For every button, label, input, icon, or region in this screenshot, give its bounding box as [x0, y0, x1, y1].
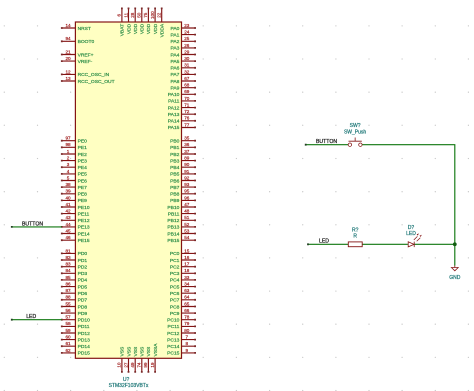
svg-text:PA10: PA10	[168, 92, 180, 98]
svg-text:55: 55	[65, 301, 71, 306]
svg-text:PB4: PB4	[170, 165, 180, 171]
svg-text:PE5: PE5	[78, 172, 88, 178]
svg-text:BOOT0: BOOT0	[78, 39, 95, 45]
svg-text:PA7: PA7	[171, 72, 180, 78]
svg-text:44: 44	[65, 222, 71, 227]
svg-text:49: 49	[130, 362, 135, 368]
svg-text:61: 61	[65, 341, 71, 346]
svg-text:PA4: PA4	[171, 52, 180, 58]
svg-text:65: 65	[184, 301, 190, 306]
svg-text:10: 10	[117, 362, 122, 368]
svg-text:74: 74	[137, 362, 142, 368]
svg-text:47: 47	[184, 202, 190, 207]
svg-text:7: 7	[186, 335, 189, 340]
svg-text:6: 6	[117, 13, 122, 16]
svg-text:58: 58	[65, 321, 71, 326]
svg-text:25: 25	[184, 36, 190, 41]
svg-text:PD8: PD8	[78, 304, 88, 310]
svg-text:PB13: PB13	[167, 225, 179, 231]
svg-text:VDD: VDD	[153, 23, 159, 34]
svg-text:69: 69	[184, 89, 190, 94]
svg-text:80: 80	[184, 328, 190, 333]
svg-text:PD3: PD3	[78, 271, 88, 277]
svg-text:87: 87	[65, 288, 71, 293]
svg-text:14: 14	[65, 23, 71, 28]
svg-text:PD4: PD4	[78, 278, 88, 284]
svg-text:SW?: SW?	[350, 123, 361, 129]
svg-text:PC5: PC5	[170, 284, 180, 290]
svg-text:PB1: PB1	[170, 145, 180, 151]
svg-text:50: 50	[137, 12, 142, 18]
svg-text:PC3: PC3	[170, 271, 180, 277]
svg-text:PD0: PD0	[78, 251, 88, 257]
svg-text:PE12: PE12	[78, 218, 90, 224]
svg-text:PE14: PE14	[78, 231, 90, 237]
svg-text:PB5: PB5	[170, 172, 180, 178]
svg-text:PE1: PE1	[78, 145, 88, 151]
svg-text:99: 99	[143, 362, 148, 368]
svg-text:PC12: PC12	[167, 331, 180, 337]
svg-text:13: 13	[65, 76, 71, 81]
svg-text:PC2: PC2	[170, 265, 180, 271]
svg-text:76: 76	[184, 116, 190, 121]
svg-text:96: 96	[184, 195, 190, 200]
svg-text:26: 26	[184, 43, 190, 48]
svg-text:1: 1	[67, 149, 70, 154]
svg-text:RCC_OSC_OUT: RCC_OSC_OUT	[78, 79, 115, 85]
svg-text:5: 5	[67, 175, 70, 180]
svg-text:PE13: PE13	[78, 225, 90, 231]
svg-text:92: 92	[184, 175, 190, 180]
svg-text:PB10: PB10	[167, 205, 179, 211]
svg-text:70: 70	[184, 96, 190, 101]
svg-text:35: 35	[184, 136, 190, 141]
svg-text:PC9: PC9	[170, 311, 180, 317]
svg-text:PE3: PE3	[78, 158, 88, 164]
svg-text:PA11: PA11	[168, 99, 180, 105]
svg-text:VREF+: VREF+	[78, 52, 94, 58]
svg-text:PC13: PC13	[167, 337, 180, 343]
svg-text:82: 82	[65, 255, 71, 260]
svg-text:30: 30	[184, 56, 190, 61]
svg-text:77: 77	[184, 122, 190, 127]
svg-text:23: 23	[184, 23, 190, 28]
svg-text:41: 41	[65, 202, 71, 207]
svg-text:53: 53	[184, 228, 190, 233]
svg-text:VSSA: VSSA	[153, 343, 159, 357]
svg-text:PD7: PD7	[78, 298, 88, 304]
svg-text:57: 57	[65, 315, 71, 320]
svg-text:PE2: PE2	[78, 152, 88, 158]
svg-text:PB2: PB2	[170, 152, 180, 158]
svg-text:PC10: PC10	[167, 318, 180, 324]
svg-text:PC8: PC8	[170, 304, 180, 310]
svg-text:PD2: PD2	[78, 265, 88, 271]
svg-text:78: 78	[184, 315, 190, 320]
svg-text:PC11: PC11	[168, 324, 180, 330]
svg-text:SW_Push: SW_Push	[344, 130, 366, 136]
svg-text:91: 91	[184, 169, 190, 174]
svg-text:PD13: PD13	[78, 337, 91, 343]
svg-text:79: 79	[184, 321, 190, 326]
svg-text:84: 84	[65, 268, 71, 273]
svg-text:52: 52	[184, 222, 190, 227]
svg-text:18: 18	[184, 268, 190, 273]
svg-text:PA9: PA9	[171, 86, 180, 92]
svg-text:PD6: PD6	[78, 291, 88, 297]
svg-text:PC0: PC0	[170, 251, 180, 257]
svg-text:PE11: PE11	[78, 211, 90, 217]
svg-text:51: 51	[184, 215, 190, 220]
svg-text:PA15: PA15	[168, 125, 180, 131]
svg-text:97: 97	[65, 136, 71, 141]
svg-text:81: 81	[65, 248, 71, 253]
svg-text:45: 45	[65, 228, 71, 233]
svg-text:98: 98	[65, 142, 71, 147]
svg-text:PD5: PD5	[78, 284, 88, 290]
svg-text:PA0: PA0	[171, 26, 180, 32]
svg-text:VREF-: VREF-	[78, 59, 93, 65]
svg-text:83: 83	[65, 262, 71, 267]
svg-text:PA6: PA6	[171, 66, 180, 72]
svg-text:3: 3	[67, 162, 70, 167]
svg-text:VDD: VDD	[146, 23, 152, 34]
svg-text:PE9: PE9	[78, 198, 88, 204]
svg-text:PA14: PA14	[168, 119, 180, 125]
svg-text:94: 94	[65, 36, 71, 41]
svg-text:NRST: NRST	[78, 26, 91, 32]
svg-text:PD1: PD1	[78, 258, 88, 264]
svg-text:VDD: VDD	[126, 23, 132, 34]
svg-text:PB11: PB11	[168, 211, 180, 217]
svg-text:PD14: PD14	[78, 344, 91, 350]
svg-text:PB3: PB3	[170, 158, 180, 164]
svg-text:9: 9	[186, 348, 189, 353]
svg-text:64: 64	[184, 295, 190, 300]
svg-text:PB15: PB15	[167, 238, 179, 244]
svg-text:VSS: VSS	[126, 346, 132, 357]
svg-text:28: 28	[130, 12, 135, 18]
svg-text:15: 15	[184, 248, 190, 253]
svg-text:PD11: PD11	[78, 324, 90, 330]
svg-text:8: 8	[186, 341, 189, 346]
svg-text:33: 33	[184, 275, 190, 280]
svg-text:PE10: PE10	[78, 205, 90, 211]
svg-text:PC1: PC1	[170, 258, 180, 264]
svg-text:4: 4	[67, 169, 70, 174]
svg-text:LED: LED	[406, 231, 416, 237]
svg-text:VBAT: VBAT	[120, 24, 126, 36]
svg-text:27: 27	[123, 362, 128, 368]
svg-text:60: 60	[65, 335, 71, 340]
svg-text:88: 88	[65, 295, 71, 300]
svg-text:85: 85	[65, 275, 71, 280]
svg-text:VDDA: VDDA	[160, 23, 166, 37]
svg-text:PD15: PD15	[78, 351, 91, 357]
svg-text:42: 42	[65, 209, 71, 214]
svg-text:PC4: PC4	[170, 278, 180, 284]
svg-text:RCC_OSC_IN: RCC_OSC_IN	[78, 72, 110, 78]
svg-text:95: 95	[184, 189, 190, 194]
svg-text:PA8: PA8	[171, 79, 180, 85]
svg-text:46: 46	[65, 235, 71, 240]
svg-text:VDD: VDD	[133, 23, 139, 34]
svg-text:PE7: PE7	[78, 185, 88, 191]
svg-text:19: 19	[150, 362, 155, 368]
svg-text:PA12: PA12	[168, 105, 180, 111]
svg-text:PB14: PB14	[167, 231, 179, 237]
svg-text:PA13: PA13	[168, 112, 180, 118]
svg-text:PB7: PB7	[170, 185, 180, 191]
svg-text:93: 93	[184, 182, 190, 187]
svg-text:20: 20	[65, 56, 71, 61]
svg-text:71: 71	[184, 103, 190, 108]
svg-text:BUTTON: BUTTON	[316, 139, 337, 145]
svg-text:PC7: PC7	[170, 298, 180, 304]
svg-text:43: 43	[65, 215, 71, 220]
svg-text:PB8: PB8	[170, 192, 180, 198]
svg-text:VSS: VSS	[140, 346, 146, 357]
svg-text:56: 56	[65, 308, 71, 313]
svg-text:PB0: PB0	[170, 139, 180, 145]
svg-text:22: 22	[157, 12, 162, 18]
svg-text:PA5: PA5	[171, 59, 180, 65]
svg-text:72: 72	[184, 109, 190, 114]
svg-text:34: 34	[184, 282, 190, 287]
svg-text:PC14: PC14	[167, 344, 180, 350]
svg-text:21: 21	[65, 49, 71, 54]
svg-text:29: 29	[184, 49, 190, 54]
svg-text:75: 75	[143, 12, 148, 18]
svg-text:PA3: PA3	[171, 46, 180, 52]
svg-text:PB9: PB9	[170, 198, 180, 204]
svg-text:24: 24	[184, 30, 190, 35]
svg-text:59: 59	[65, 328, 71, 333]
svg-text:67: 67	[184, 76, 190, 81]
svg-text:54: 54	[184, 235, 190, 240]
svg-text:LED: LED	[319, 239, 329, 245]
svg-text:R?: R?	[352, 227, 359, 233]
svg-text:17: 17	[184, 262, 190, 267]
svg-text:63: 63	[184, 288, 190, 293]
svg-text:66: 66	[184, 308, 190, 313]
svg-text:PB6: PB6	[170, 178, 180, 184]
svg-text:PC15: PC15	[167, 351, 180, 357]
svg-text:PA2: PA2	[171, 39, 180, 45]
svg-text:16: 16	[184, 255, 190, 260]
svg-text:PD9: PD9	[78, 311, 88, 317]
svg-text:PC6: PC6	[170, 291, 180, 297]
svg-text:38: 38	[65, 182, 71, 187]
svg-text:100: 100	[150, 11, 155, 19]
svg-text:PD10: PD10	[78, 318, 91, 324]
svg-text:90: 90	[184, 162, 190, 167]
svg-text:68: 68	[184, 83, 190, 88]
svg-text:STM32F103VBTx: STM32F103VBTx	[109, 383, 149, 389]
svg-text:PA1: PA1	[171, 32, 180, 38]
svg-text:PE8: PE8	[78, 192, 88, 198]
svg-text:86: 86	[65, 282, 71, 287]
svg-text:PE0: PE0	[78, 139, 88, 145]
svg-text:32: 32	[184, 69, 190, 74]
svg-text:VSS: VSS	[133, 346, 139, 357]
svg-text:VSS: VSS	[120, 346, 126, 357]
svg-text:31: 31	[184, 63, 190, 68]
svg-text:R: R	[353, 234, 357, 240]
svg-text:PE15: PE15	[78, 238, 90, 244]
svg-text:PE6: PE6	[78, 178, 88, 184]
svg-text:37: 37	[184, 149, 190, 154]
svg-text:12: 12	[65, 69, 71, 74]
svg-text:PD12: PD12	[78, 331, 91, 337]
svg-text:PE4: PE4	[78, 165, 88, 171]
svg-text:40: 40	[65, 195, 71, 200]
svg-text:11: 11	[123, 12, 128, 17]
svg-text:36: 36	[184, 142, 190, 147]
svg-text:62: 62	[65, 348, 71, 353]
svg-text:VSS: VSS	[146, 346, 152, 357]
svg-text:VDD: VDD	[140, 23, 146, 34]
svg-text:89: 89	[184, 156, 190, 161]
svg-text:2: 2	[67, 156, 70, 161]
svg-text:PB12: PB12	[167, 218, 179, 224]
svg-text:48: 48	[184, 209, 190, 214]
svg-text:GND: GND	[449, 275, 461, 281]
svg-text:39: 39	[65, 189, 71, 194]
